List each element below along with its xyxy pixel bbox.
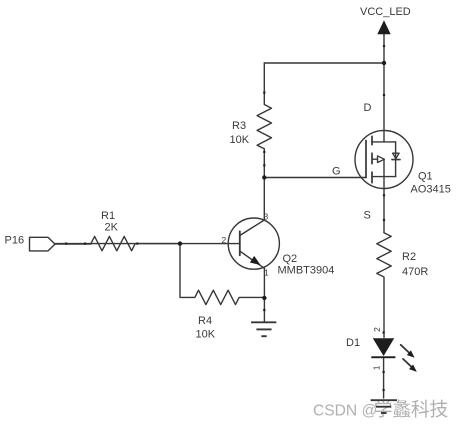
ground under Q2 (251, 322, 276, 336)
pin end ticks D1 (383, 331, 385, 333)
mosfet Q1 substrate arrowhead (378, 156, 385, 163)
pin end ticks R1 and P16 (65, 243, 67, 245)
mosfet Q1 drain wire (383, 63, 385, 142)
ground under D1 (371, 400, 397, 413)
mosfet Q1 body diode cathode bar (392, 159, 400, 161)
svg-text:MMBT3904: MMBT3904 (278, 265, 335, 277)
svg-text:AO3415: AO3415 (411, 184, 451, 196)
watermark glyphs 学蠡科技 (375, 399, 392, 417)
junction gate node (262, 175, 266, 179)
wire base (55, 243, 240, 245)
mosfet Q1 gate bar (365, 141, 367, 178)
power arrow VCC (377, 20, 390, 34)
svg-text:470R: 470R (402, 266, 428, 278)
svg-text:10K: 10K (196, 329, 216, 341)
transistor Q2 collector line (240, 220, 264, 236)
svg-text:2K: 2K (105, 222, 119, 234)
svg-text:R1: R1 (101, 210, 115, 222)
svg-text:R2: R2 (402, 251, 416, 263)
mosfet Q1 channel dashes (371, 136, 373, 182)
resistor R1 (91, 236, 180, 250)
transistor Q2 base bar (239, 231, 241, 255)
svg-text:CSDN @: CSDN @ (313, 403, 377, 420)
svg-text:P16: P16 (5, 235, 25, 247)
wire emitter down (263, 268, 265, 297)
svg-text:D1: D1 (346, 337, 360, 349)
svg-text:G: G (332, 166, 341, 178)
wire top horizontal (264, 62, 384, 64)
svg-text:Q1: Q1 (418, 171, 433, 183)
led D1 light arrow 2 shaft (403, 359, 411, 367)
mosfet Q1 body diode line (395, 142, 397, 177)
led D1 cathode lead (383, 357, 385, 398)
transistor Q2 emitter arrowhead (250, 256, 261, 265)
pin end ticks VCC and Q1 drain/source (383, 45, 385, 47)
wire to ground Q2 (263, 297, 265, 322)
wire gate (264, 177, 366, 179)
wire P16 to R1 (55, 243, 91, 245)
svg-text:R3: R3 (232, 120, 246, 132)
led D1 triangle (373, 338, 394, 356)
svg-text:S: S (364, 210, 371, 222)
power flag VCC_LED (383, 34, 385, 63)
svg-text:D: D (364, 102, 372, 114)
led D1 cathode bar (371, 356, 395, 358)
svg-text:10K: 10K (230, 134, 250, 146)
svg-text:1: 1 (264, 268, 269, 278)
led D1 light arrow 2 head (409, 365, 417, 372)
mosfet Q1 outline (355, 131, 413, 189)
svg-text:R4: R4 (198, 315, 212, 327)
svg-text:3: 3 (264, 212, 269, 222)
mosfet Q1 body diode triangle (393, 153, 400, 158)
transistor Q2 emitter line (240, 251, 265, 268)
led D1 light arrow 1 shaft (401, 345, 409, 353)
resistor R4 (195, 290, 265, 304)
pin end tick ground Q2 (263, 309, 265, 311)
resistor R2 (377, 233, 391, 338)
resistor R3 (257, 63, 271, 220)
svg-text:2: 2 (222, 235, 227, 245)
wire R4 branch (180, 244, 195, 298)
mosfet Q1 substrate arrow line (373, 158, 378, 160)
pin end ticks R3 (263, 92, 265, 94)
transistor Q2 outline (228, 218, 279, 269)
junction base node (178, 241, 182, 245)
svg-text:1: 1 (372, 365, 382, 370)
junction VCC wire (382, 61, 386, 65)
junction emitter node (262, 296, 266, 300)
mosfet Q1 plates (372, 142, 396, 177)
svg-text:Q2: Q2 (283, 253, 298, 265)
led D1 light arrow 1 head (407, 350, 415, 357)
connector P16 (30, 237, 56, 251)
filled shapes (65, 20, 417, 391)
mosfet Q1 source internal (383, 159, 385, 233)
svg-text:2: 2 (372, 327, 382, 332)
svg-text:VCC_LED: VCC_LED (360, 6, 411, 18)
